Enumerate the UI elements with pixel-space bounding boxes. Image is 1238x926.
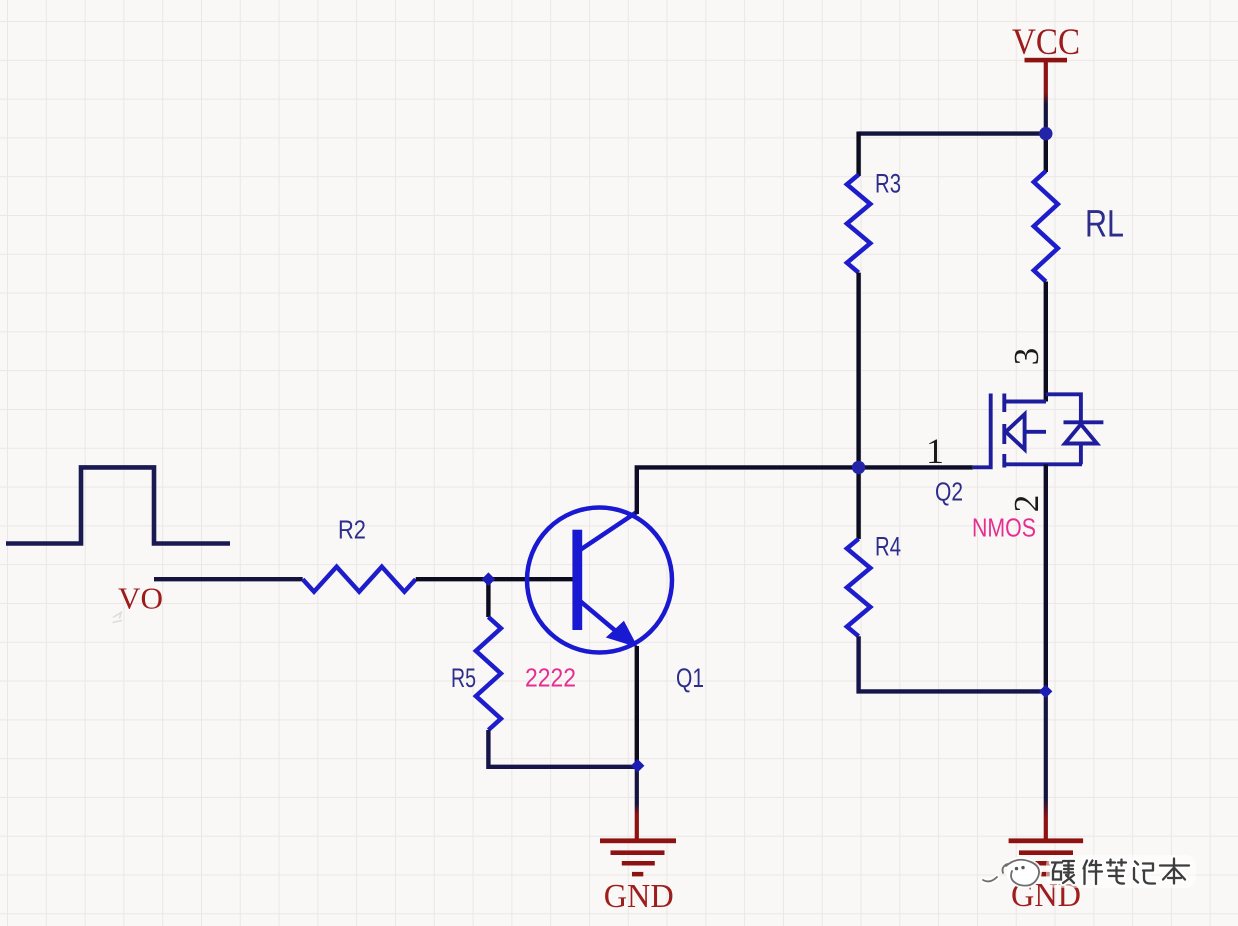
wire emitter junction to GND1 stem	[635, 766, 639, 839]
svg-text:VO: VO	[118, 581, 163, 616]
transistor Q1 (NPN 2222)	[527, 508, 672, 653]
svg-text:R5: R5	[451, 663, 476, 693]
svg-text:3: 3	[1007, 348, 1046, 366]
svg-text:NMOS: NMOS	[972, 513, 1036, 543]
svg-text:R2: R2	[338, 515, 366, 545]
wire R2 to Q1 base	[416, 577, 574, 581]
resistor R2	[303, 567, 416, 592]
ground GND1 symbol	[600, 838, 676, 876]
emitter arrow of Q1	[606, 621, 638, 648]
watermark text strokes (hardware notebook)	[1052, 859, 1189, 885]
gate bar	[973, 394, 991, 468]
svg-text:2: 2	[1007, 495, 1046, 513]
resistor RL	[1034, 171, 1058, 282]
junction node VCC rail (round)	[1039, 127, 1052, 140]
artifact faint chevron below VO	[113, 613, 123, 623]
source line	[1004, 462, 1082, 466]
wire Q1 emitter down to GND	[635, 646, 639, 767]
svg-text:2222: 2222	[525, 663, 576, 693]
body arrow	[1006, 414, 1025, 449]
junction node source/bottom rail (diamond)	[1039, 685, 1053, 698]
wire VCC junction down to RL	[1044, 134, 1048, 172]
wire junction down to R4	[856, 467, 860, 539]
wire R3 to gate junction	[856, 273, 860, 468]
svg-text:Q2: Q2	[935, 477, 963, 507]
body line	[1025, 430, 1046, 434]
wire top rail VCC to R3	[859, 131, 1046, 135]
resistor R5	[476, 617, 501, 730]
svg-text:R4: R4	[875, 532, 901, 562]
resistor R3	[847, 175, 870, 273]
wire Q2 source down through junction to GND2	[1044, 464, 1048, 691]
channel segments	[1002, 394, 1006, 413]
junction node emitter/R5 (diamond)	[631, 759, 645, 772]
power VCC bar	[1025, 58, 1068, 63]
svg-text:Q1: Q1	[676, 663, 704, 693]
wire Q1 collector up and across to Q2 gate	[637, 467, 973, 514]
svg-text:1: 1	[926, 431, 944, 471]
watermark logo eyes	[1015, 867, 1018, 870]
wire R4 to bottom rail	[859, 636, 1046, 691]
svg-text:RL: RL	[1085, 204, 1124, 246]
drain line	[1004, 400, 1046, 404]
wire VO input	[154, 577, 303, 581]
svg-text:VCC: VCC	[1012, 22, 1080, 63]
svg-text:R3: R3	[875, 169, 901, 199]
wire R5 bottom to emitter	[488, 730, 636, 767]
wire VCC stem	[1044, 62, 1048, 135]
junction node gate (round)	[852, 461, 865, 474]
svg-text:GND: GND	[604, 878, 674, 915]
junction node base/R5 (diamond)	[482, 572, 496, 586]
transistor Q2 NMOS symbol	[973, 394, 1082, 468]
ground GND2 symbol	[1009, 838, 1084, 876]
pulse waveform input signal	[6, 467, 230, 543]
wire rail corner down to R3	[856, 132, 860, 177]
wire RL to Q2 drain	[1044, 282, 1048, 402]
watermark logo swirl	[1006, 859, 1040, 885]
body diode of Q2	[1046, 394, 1103, 464]
watermark text halo	[1046, 855, 1196, 888]
resistor R4	[847, 539, 870, 636]
wire junction to R5	[486, 579, 490, 617]
